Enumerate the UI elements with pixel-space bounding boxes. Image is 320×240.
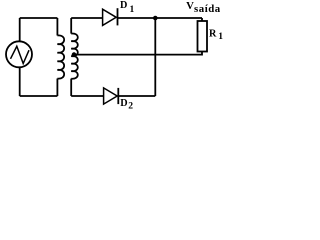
inductor primary winding of transformer bbox=[57, 18, 64, 96]
svg-text:2: 2 bbox=[128, 100, 133, 111]
wire secondary top to diode D1 anode bbox=[71, 17, 102, 19]
svg-text:D: D bbox=[120, 98, 127, 109]
node center tap of secondary bbox=[72, 52, 77, 57]
wire primary loop left edge below source bbox=[19, 67, 21, 96]
diode D1 bbox=[103, 8, 118, 25]
svg-text:saída: saída bbox=[194, 3, 221, 15]
node junction of cathode bus bbox=[153, 16, 158, 21]
svg-text:V: V bbox=[186, 0, 194, 12]
wire primary loop top edge bbox=[20, 17, 58, 19]
diode D2 bbox=[104, 88, 119, 104]
wire center tap to resistor R1 bottom bbox=[74, 52, 202, 55]
svg-text:R: R bbox=[209, 28, 217, 39]
inductor secondary winding of transformer bbox=[71, 18, 78, 96]
wire cathode bus vertical bbox=[154, 18, 156, 96]
AC source V1 bbox=[6, 41, 32, 67]
svg-text:D: D bbox=[120, 0, 127, 11]
wire D1 cathode to resistor R1 top bbox=[118, 17, 203, 19]
svg-text:1: 1 bbox=[218, 31, 223, 42]
wire D2 cathode to cathode bus bbox=[118, 95, 155, 97]
wire primary loop left edge above source bbox=[19, 18, 21, 41]
svg-text:1: 1 bbox=[130, 4, 135, 15]
resistor R1 bbox=[198, 18, 208, 52]
wire primary loop bottom edge bbox=[20, 95, 58, 97]
wire secondary bottom to diode D2 anode bbox=[71, 95, 103, 97]
